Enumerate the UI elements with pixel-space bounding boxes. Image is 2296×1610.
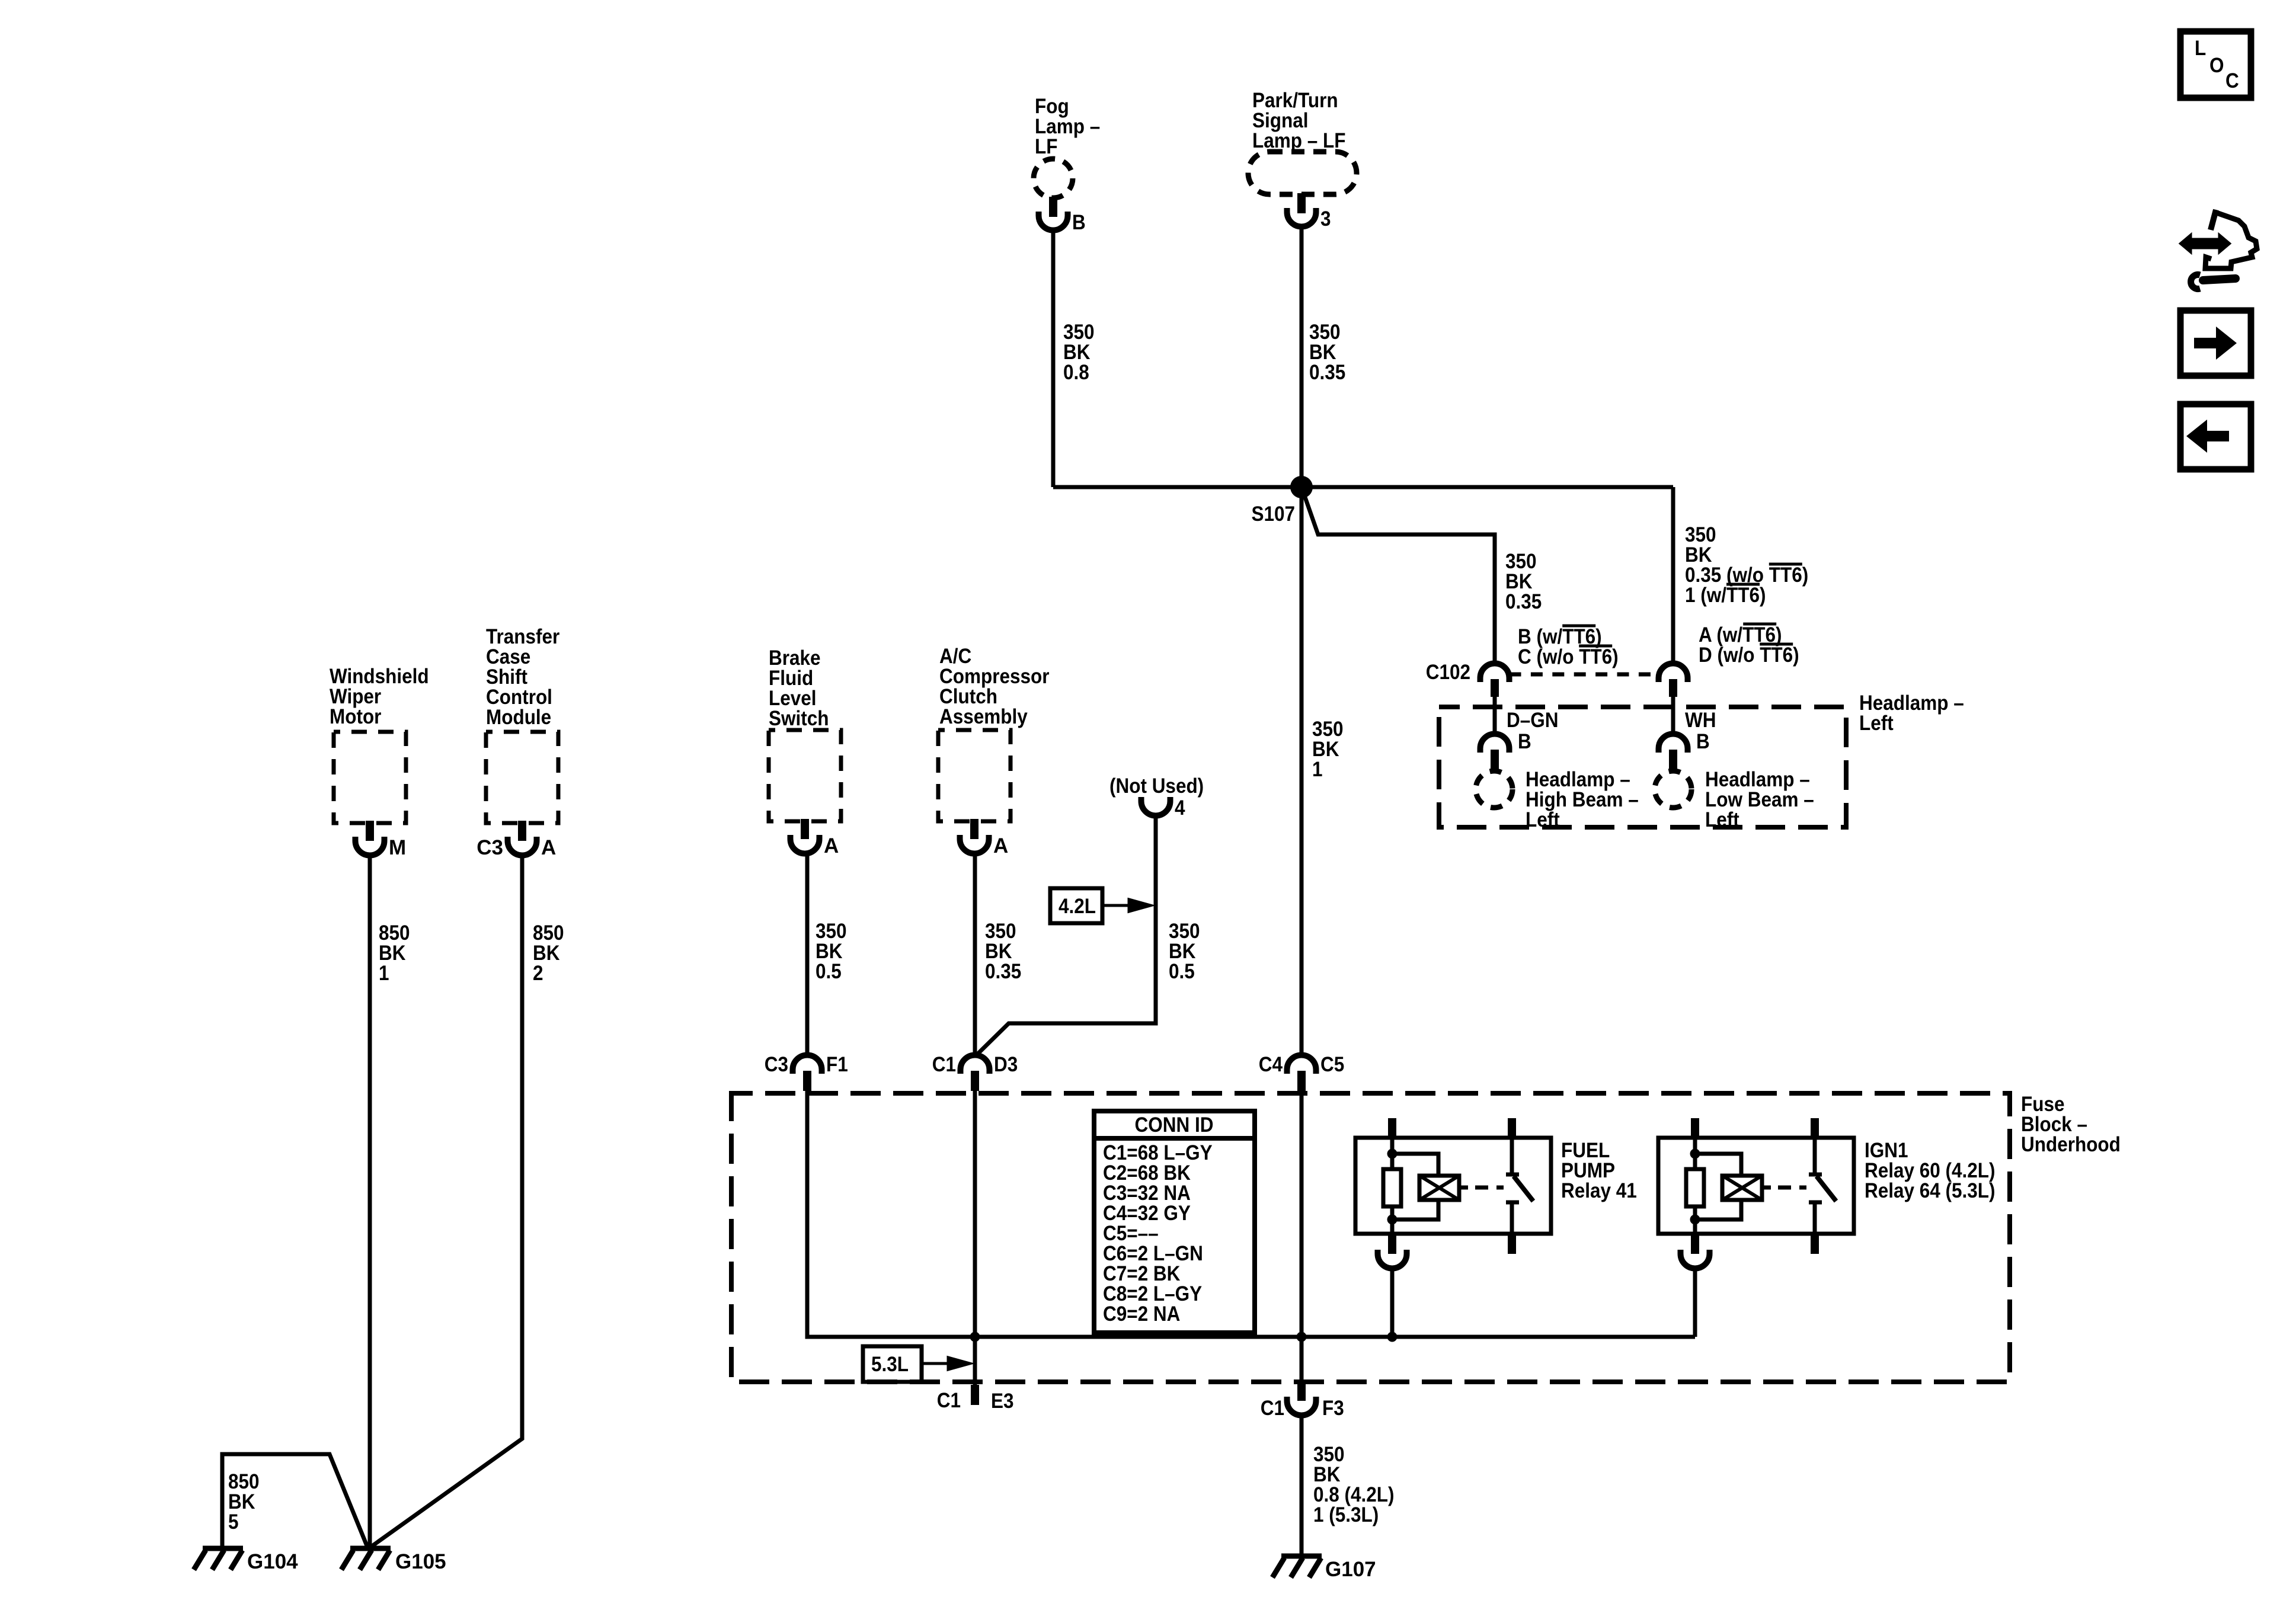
ground G105 bbox=[350, 1546, 391, 1551]
overline TT6 (B w/TT6) bbox=[1562, 625, 1595, 628]
brake fluid level switch connector cup bbox=[791, 835, 820, 854]
A/C compressor clutch assembly connector cup bbox=[960, 835, 989, 854]
A/C compressor clutch assembly pin stub bbox=[970, 819, 978, 839]
svg-text:4.2L: 4.2L bbox=[1059, 895, 1096, 918]
brake fluid level switch bbox=[769, 730, 841, 821]
wire fuel pump relay coil to bus bbox=[1390, 1269, 1395, 1337]
relay IGN1 Relay 60/64 coil branch bottom wire bbox=[1695, 1200, 1741, 1219]
svg-text:0.35: 0.35 bbox=[1309, 361, 1345, 385]
svg-text:Module: Module bbox=[486, 706, 551, 729]
relay IGN1 Relay 60/64 junction dot top bbox=[1690, 1149, 1700, 1159]
relay IGN1 Relay 60/64 junction dot bottom bbox=[1690, 1215, 1700, 1225]
high beam pin stub bbox=[1491, 750, 1499, 770]
svg-text:E3: E3 bbox=[991, 1390, 1014, 1413]
svg-text:F3: F3 bbox=[1322, 1397, 1344, 1420]
park/turn pin stub bbox=[1297, 193, 1306, 213]
svg-text:G107: G107 bbox=[1325, 1558, 1376, 1581]
svg-text:0.8: 0.8 bbox=[1063, 361, 1089, 385]
windshield wiper motor bbox=[334, 732, 406, 823]
relay IGN1 Relay 60/64 coil branch top wire bbox=[1695, 1154, 1741, 1177]
svg-text:1: 1 bbox=[1312, 758, 1323, 782]
relay FUEL PUMP Relay 41 actuator dashed link bbox=[1475, 1186, 1504, 1190]
not-used connector cup bbox=[1141, 797, 1171, 816]
windshield wiper motor connector cup bbox=[356, 837, 385, 856]
svg-text:Relay 64 (5.3L): Relay 64 (5.3L) bbox=[1865, 1180, 1996, 1203]
overline TT6 (D w/o TT6) bbox=[1760, 643, 1793, 646]
CONN ID table bbox=[1094, 1111, 1255, 1333]
svg-text:C4: C4 bbox=[1259, 1054, 1283, 1077]
low beam pin stub bbox=[1669, 750, 1677, 770]
svg-text:O: O bbox=[2209, 55, 2224, 78]
relay IGN1 Relay 60/64 coil pin bottom stub bbox=[1691, 1234, 1699, 1254]
F3 pin stub bbox=[1297, 1383, 1306, 1401]
relay IGN1 Relay 60/64 coil actuator stub bbox=[1762, 1186, 1771, 1190]
svg-text:0.5: 0.5 bbox=[816, 961, 842, 984]
headlamp high beam (dashed circle) bbox=[1476, 771, 1512, 808]
wire S107 horizontal bus bbox=[1053, 485, 1673, 489]
forward arrow box bbox=[2180, 311, 2251, 376]
svg-text:4: 4 bbox=[1175, 797, 1185, 820]
svg-text:C3: C3 bbox=[477, 836, 503, 859]
ground G107 bbox=[1281, 1554, 1322, 1559]
wire 850 BK 1 wiper to G105 bbox=[368, 856, 372, 1548]
relay FUEL PUMP Relay 41 wire resistor to pin bbox=[1390, 1206, 1395, 1234]
svg-text:Motor: Motor bbox=[330, 706, 381, 729]
svg-text:1 (5.3L): 1 (5.3L) bbox=[1313, 1504, 1379, 1527]
park/turn lamp (dashed stadium) bbox=[1248, 152, 1357, 194]
wire A/C compressor to D3 bbox=[973, 854, 977, 1055]
splice S107 junction dot bbox=[1290, 476, 1313, 498]
svg-text:F1: F1 bbox=[826, 1054, 848, 1077]
C102 dashed connector line bbox=[1510, 673, 1659, 677]
svg-text:C1: C1 bbox=[937, 1390, 961, 1413]
relay IGN1 Relay 60/64 coil pin connector cup bbox=[1681, 1250, 1710, 1269]
wire F3 to G107 bbox=[1300, 1416, 1304, 1554]
connector C102 cavity B/C bbox=[1480, 664, 1510, 683]
transfer case shift control module pin stub bbox=[518, 821, 526, 841]
relay FUEL PUMP Relay 41 coil pin bottom stub bbox=[1388, 1234, 1396, 1254]
svg-text:A: A bbox=[993, 834, 1008, 857]
relay FUEL PUMP Relay 41 coil pin connector cup bbox=[1378, 1250, 1407, 1269]
fog lamp connector cup bbox=[1039, 212, 1068, 231]
wire IGN1 relay coil to bus bbox=[1693, 1266, 1697, 1337]
svg-text:1 (w/TT6): 1 (w/TT6) bbox=[1685, 584, 1766, 607]
headlamp high beam connector B bbox=[1480, 734, 1510, 753]
relay FUEL PUMP Relay 41 bbox=[1355, 1138, 1551, 1234]
back arrow box bbox=[2180, 404, 2251, 469]
vehicle-with-wrench icon bbox=[2211, 210, 2216, 230]
wire fuse block internal bus bbox=[807, 1090, 1695, 1337]
connector C102 cavity A/D bbox=[1659, 664, 1688, 683]
overline TT6 (1 w/TT6) bbox=[1726, 583, 1760, 586]
svg-text:L: L bbox=[2195, 37, 2206, 60]
wire D3 to E3 through bus bbox=[973, 1090, 977, 1385]
transfer case shift control module bbox=[486, 732, 558, 823]
relay IGN1 Relay 60/64 switch bottom contact tick bbox=[1809, 1201, 1822, 1205]
svg-text:C: C bbox=[2225, 70, 2239, 93]
svg-text:G104: G104 bbox=[247, 1550, 298, 1573]
relay FUEL PUMP Relay 41 coil branch top wire bbox=[1392, 1154, 1438, 1177]
svg-text:0.5: 0.5 bbox=[1169, 961, 1195, 984]
svg-text:Underhood: Underhood bbox=[2021, 1134, 2121, 1157]
relay IGN1 Relay 60/64 coil (box with X) bbox=[1722, 1176, 1762, 1200]
relay FUEL PUMP Relay 41 wire pin to resistor bbox=[1390, 1138, 1395, 1170]
svg-text:C5: C5 bbox=[1320, 1054, 1344, 1077]
connector dome F1 bbox=[793, 1055, 822, 1074]
svg-text:Left: Left bbox=[1705, 809, 1739, 832]
svg-text:B: B bbox=[1518, 731, 1531, 754]
relay FUEL PUMP Relay 41 coil pin top stub bbox=[1388, 1118, 1396, 1140]
svg-text:LF: LF bbox=[1035, 136, 1057, 159]
svg-text:WH: WH bbox=[1685, 709, 1716, 732]
svg-text:B: B bbox=[1072, 212, 1086, 235]
transfer case shift control module connector cup bbox=[508, 837, 537, 856]
wire C102 to headlamp high beam bbox=[1493, 697, 1497, 734]
headlamp low beam connector B bbox=[1659, 734, 1688, 753]
relay FUEL PUMP Relay 41 resistor bbox=[1383, 1169, 1401, 1206]
svg-text:0.35: 0.35 bbox=[1505, 591, 1542, 614]
relay FUEL PUMP Relay 41 switch upper wire bbox=[1510, 1138, 1514, 1174]
svg-text:C1: C1 bbox=[1261, 1397, 1284, 1420]
relay IGN1 Relay 60/64 switch pin bottom stub bbox=[1811, 1234, 1819, 1254]
A/C compressor clutch assembly bbox=[938, 730, 1011, 821]
svg-text:2: 2 bbox=[533, 962, 543, 985]
relay IGN1 Relay 60/64 wire resistor to pin bbox=[1693, 1206, 1697, 1234]
wire right branch down to C102 A/D bbox=[1671, 487, 1675, 664]
relay FUEL PUMP Relay 41 junction dot top bbox=[1387, 1149, 1398, 1159]
relay FUEL PUMP Relay 41 coil branch bottom wire bbox=[1392, 1200, 1438, 1219]
svg-text:A: A bbox=[541, 836, 556, 859]
svg-text:M: M bbox=[389, 836, 406, 859]
Headlamp - Left dashed box bbox=[1439, 707, 1846, 827]
relay IGN1 Relay 60/64 bbox=[1658, 1138, 1854, 1234]
svg-text:Assembly: Assembly bbox=[939, 706, 1028, 729]
relay FUEL PUMP Relay 41 coil (box with X) bbox=[1419, 1176, 1459, 1200]
5.3L tag box bbox=[863, 1346, 922, 1382]
5.3L tag arrow bbox=[922, 1358, 970, 1369]
E3 pin stub bbox=[971, 1385, 979, 1405]
svg-text:A: A bbox=[824, 834, 839, 857]
junction dot bus/fuel pump relay bbox=[1387, 1332, 1398, 1342]
svg-text:D3: D3 bbox=[994, 1054, 1018, 1077]
LOC legend box (top right) bbox=[2180, 31, 2251, 98]
wire fog lamp down bbox=[1051, 231, 1056, 488]
4.2L tag box bbox=[1050, 888, 1102, 923]
relay IGN1 Relay 60/64 switch lower wire bbox=[1813, 1202, 1817, 1234]
svg-text:(Not Used): (Not Used) bbox=[1109, 775, 1204, 798]
relay IGN1 Relay 60/64 switch upper wire bbox=[1813, 1138, 1817, 1174]
relay FUEL PUMP Relay 41 switch blade bbox=[1514, 1176, 1533, 1201]
wire park/turn down through S107 bbox=[1300, 227, 1304, 1055]
double arrow of vehicle icon bbox=[2180, 234, 2230, 253]
svg-text:Relay 41: Relay 41 bbox=[1561, 1180, 1637, 1203]
fog lamp pin stub bbox=[1049, 197, 1057, 217]
park/turn connector cup bbox=[1287, 208, 1316, 227]
junction dot bus/E3 bbox=[970, 1332, 980, 1342]
relay IGN1 Relay 60/64 wire pin to resistor bbox=[1693, 1138, 1697, 1170]
svg-text:C9=2 NA: C9=2 NA bbox=[1103, 1303, 1180, 1326]
ground G104 bbox=[203, 1546, 243, 1551]
relay FUEL PUMP Relay 41 junction dot bottom bbox=[1387, 1215, 1398, 1225]
F1 pin stub bbox=[803, 1071, 811, 1091]
svg-text:D (w/o TT6): D (w/o TT6) bbox=[1699, 644, 1799, 667]
relay IGN1 Relay 60/64 switch pin top stub bbox=[1811, 1118, 1819, 1140]
relay FUEL PUMP Relay 41 switch pin top stub bbox=[1508, 1118, 1516, 1140]
junction dot bus/F3 bbox=[1297, 1332, 1307, 1342]
windshield wiper motor pin stub bbox=[366, 821, 374, 841]
svg-text:Left: Left bbox=[1526, 809, 1560, 832]
relay FUEL PUMP Relay 41 coil actuator stub bbox=[1459, 1186, 1468, 1190]
svg-text:D–GN: D–GN bbox=[1507, 709, 1558, 732]
relay IGN1 Relay 60/64 switch top contact tick bbox=[1809, 1173, 1822, 1177]
wire C5 to F3 through bus bbox=[1300, 1091, 1304, 1383]
relay IGN1 Relay 60/64 switch blade bbox=[1817, 1176, 1836, 1201]
svg-text:3: 3 bbox=[1320, 208, 1331, 231]
headlamp low beam (dashed circle) bbox=[1655, 771, 1691, 808]
svg-text:C3: C3 bbox=[765, 1054, 788, 1077]
wire not-used pin 4 to D3 bbox=[976, 816, 1156, 1057]
relay IGN1 Relay 60/64 coil pin top stub bbox=[1691, 1118, 1699, 1140]
relay IGN1 Relay 60/64 resistor bbox=[1686, 1169, 1704, 1206]
brake fluid level switch pin stub bbox=[801, 819, 809, 839]
svg-text:5.3L: 5.3L bbox=[871, 1353, 909, 1377]
4.2L tag arrow bbox=[1102, 900, 1150, 911]
svg-text:C1: C1 bbox=[932, 1054, 956, 1077]
connector dome D3 bbox=[961, 1055, 990, 1074]
C102 A/D pin stub bbox=[1669, 679, 1677, 697]
relay FUEL PUMP Relay 41 switch top contact tick bbox=[1506, 1173, 1519, 1177]
wire 850 BK 2 transfer case to G105 bbox=[370, 856, 522, 1548]
D3 pin stub bbox=[971, 1071, 979, 1091]
svg-text:1: 1 bbox=[379, 962, 389, 985]
svg-text:0.35: 0.35 bbox=[985, 961, 1021, 984]
svg-text:Left: Left bbox=[1859, 712, 1894, 735]
wire diagonal branch S107 to C102 B/C bbox=[1302, 487, 1495, 664]
F3 connector cup bbox=[1287, 1397, 1316, 1416]
svg-text:G105: G105 bbox=[395, 1550, 446, 1573]
relay FUEL PUMP Relay 41 switch lower wire bbox=[1510, 1202, 1514, 1234]
wire C102 to headlamp low beam bbox=[1671, 697, 1675, 734]
svg-text:CONN ID: CONN ID bbox=[1135, 1114, 1214, 1137]
relay FUEL PUMP Relay 41 switch pin bottom stub bbox=[1508, 1234, 1516, 1254]
fog lamp (dashed circle) bbox=[1034, 159, 1073, 198]
C102 B/C pin stub bbox=[1491, 679, 1499, 697]
overline TT6 (A w/TT6) bbox=[1743, 623, 1776, 626]
svg-text:B: B bbox=[1696, 731, 1710, 754]
svg-text:C102: C102 bbox=[1426, 661, 1470, 684]
overline TT6 (C w/o TT6) bbox=[1579, 645, 1612, 648]
overline TT6 (0.35 w/o TT6) bbox=[1769, 563, 1802, 566]
wire brake switch to F1 bbox=[805, 854, 810, 1055]
svg-text:Switch: Switch bbox=[769, 708, 829, 731]
wrench icon bbox=[2203, 279, 2236, 280]
relay IGN1 Relay 60/64 actuator dashed link bbox=[1778, 1186, 1806, 1190]
relay FUEL PUMP Relay 41 switch bottom contact tick bbox=[1506, 1201, 1519, 1205]
svg-text:S107: S107 bbox=[1251, 503, 1295, 526]
wire 850 BK 5 from G104 to G105 bbox=[222, 1454, 367, 1547]
svg-text:5: 5 bbox=[228, 1511, 239, 1534]
Fuse Block - Underhood dashed box bbox=[731, 1093, 2010, 1382]
C5 pin stub bbox=[1297, 1071, 1306, 1091]
svg-text:C (w/o TT6): C (w/o TT6) bbox=[1518, 646, 1619, 669]
connector dome C5 bbox=[1287, 1055, 1316, 1074]
